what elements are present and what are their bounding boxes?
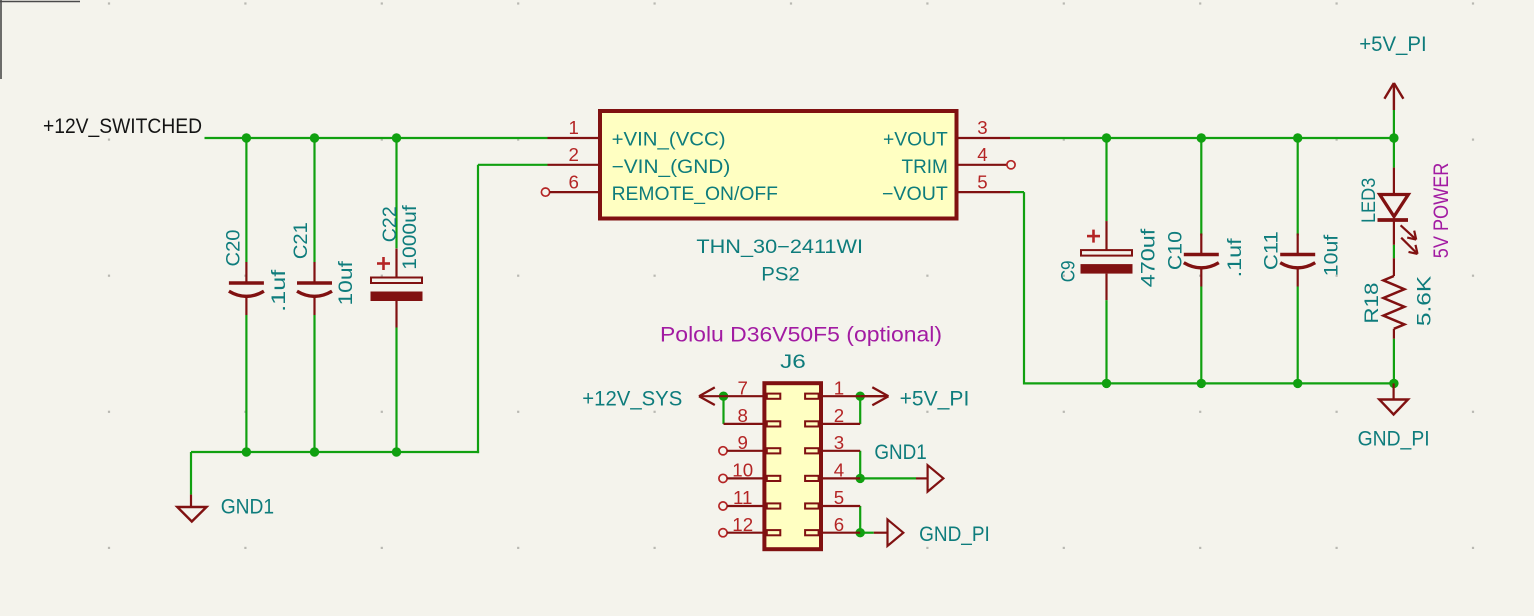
svg-text:−VOUT: −VOUT [882,184,948,205]
svg-text:5: 5 [834,487,844,508]
svg-text:C10: C10 [1166,231,1187,270]
svg-text:PS2: PS2 [761,265,800,286]
svg-text:3: 3 [834,432,844,453]
svg-text:+VIN_(VCC): +VIN_(VCC) [612,130,726,151]
svg-text:5: 5 [977,172,987,193]
svg-text:.1uf: .1uf [269,269,290,312]
svg-text:Pololu D36V50F5 (optional): Pololu D36V50F5 (optional) [660,323,942,347]
svg-text:4: 4 [834,460,844,481]
svg-text:3: 3 [977,117,987,138]
svg-text:.1uf: .1uf [1225,238,1246,278]
svg-text:C21: C21 [291,222,312,259]
svg-text:11: 11 [733,487,752,508]
svg-text:C20: C20 [224,230,245,267]
svg-text:1: 1 [834,377,844,398]
svg-text:C9: C9 [1058,260,1079,282]
svg-text:GND_PI: GND_PI [1358,427,1430,451]
svg-text:10uf: 10uf [1321,234,1342,276]
svg-text:TRIM: TRIM [902,157,948,178]
svg-text:J6: J6 [780,352,806,373]
svg-text:LED3: LED3 [1359,178,1380,223]
svg-text:+5V_PI: +5V_PI [900,387,970,411]
svg-text:C11: C11 [1262,231,1283,270]
svg-text:REMOTE_ON/OFF: REMOTE_ON/OFF [612,184,778,205]
svg-text:+12V_SYS: +12V_SYS [582,387,682,411]
svg-text:1000uf: 1000uf [400,205,421,270]
svg-text:+12V_SWITCHED: +12V_SWITCHED [43,114,202,138]
svg-text:7: 7 [737,377,747,398]
svg-text:9: 9 [737,432,747,453]
svg-text:THN_30−2411WI: THN_30−2411WI [696,237,863,258]
svg-text:5.6K: 5.6K [1415,275,1436,326]
svg-text:GND1: GND1 [874,440,926,464]
svg-text:C22: C22 [380,206,401,242]
svg-text:470uf: 470uf [1139,228,1160,287]
svg-text:4: 4 [977,144,987,165]
svg-text:10: 10 [732,460,753,481]
svg-text:5V POWER: 5V POWER [1429,163,1453,259]
svg-text:R18: R18 [1362,283,1383,324]
svg-text:+VOUT: +VOUT [883,130,948,151]
svg-text:12: 12 [732,514,753,535]
svg-text:2: 2 [568,144,578,165]
svg-text:6: 6 [834,514,844,535]
svg-text:2: 2 [834,405,844,426]
svg-text:10uf: 10uf [336,260,357,305]
svg-text:1: 1 [568,117,578,138]
svg-text:GND1: GND1 [221,495,274,519]
svg-text:GND_PI: GND_PI [919,522,990,546]
svg-text:−VIN_(GND): −VIN_(GND) [612,157,731,178]
svg-text:6: 6 [568,172,578,193]
svg-text:+5V_PI: +5V_PI [1359,32,1427,56]
svg-text:8: 8 [737,405,747,426]
